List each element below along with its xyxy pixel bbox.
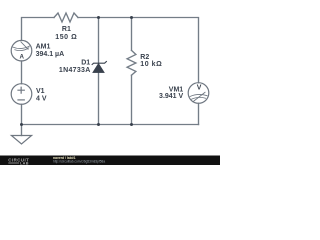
- wire: diode top lead: [98, 18, 100, 64]
- svg-text:3.941 V: 3.941 V: [159, 93, 183, 100]
- wire: ammeter to V1: [21, 61, 23, 84]
- wire: R2 top lead: [131, 18, 133, 51]
- wire: voltmeter bottom lead: [198, 103, 200, 124]
- zener diode D1: [92, 61, 107, 73]
- node dot: R2 bottom junction: [130, 123, 133, 126]
- node dot: R1/D1 junction: [97, 16, 100, 19]
- node dot: ground junction: [20, 123, 23, 126]
- ground: [11, 136, 31, 145]
- wire: top rail right segment + voltmeter top lead: [78, 18, 199, 83]
- resistor R1 zigzag: [54, 13, 78, 22]
- voltmeter VM1: [188, 83, 209, 104]
- svg-text:V1: V1: [36, 88, 45, 95]
- svg-text:V: V: [197, 85, 202, 92]
- wire: left rail top + top rail left segment: [22, 18, 55, 41]
- svg-text:http://circuitlab.com/c/6g53m8: http://circuitlab.com/c/6g53m83pf58a: [53, 160, 105, 164]
- wire: diode bottom lead: [98, 73, 100, 125]
- svg-text:4 V: 4 V: [36, 95, 47, 102]
- node dot: top R2 junction: [130, 16, 133, 19]
- svg-text:A: A: [19, 54, 24, 61]
- svg-text:AM1: AM1: [36, 44, 51, 51]
- node dot: D1 bottom junction: [97, 123, 100, 126]
- svg-text:10 kΩ: 10 kΩ: [140, 61, 162, 68]
- ammeter AM1: [11, 40, 32, 61]
- svg-text:R2: R2: [140, 54, 149, 61]
- voltage source V1: [11, 84, 32, 105]
- wire: R2 bottom lead: [131, 75, 133, 124]
- svg-text:R1: R1: [62, 26, 71, 33]
- svg-text:150 Ω: 150 Ω: [55, 34, 77, 41]
- footer bar: [0, 156, 220, 166]
- resistor R2 zigzag: [127, 50, 136, 75]
- svg-text:D1: D1: [81, 60, 90, 67]
- wire: V1 to ground: [21, 104, 23, 135]
- svg-text:LAB: LAB: [20, 162, 29, 165]
- svg-text:394.1 µA: 394.1 µA: [36, 51, 65, 58]
- wire: bottom rail: [22, 124, 199, 126]
- svg-text:1N4733A: 1N4733A: [59, 67, 91, 74]
